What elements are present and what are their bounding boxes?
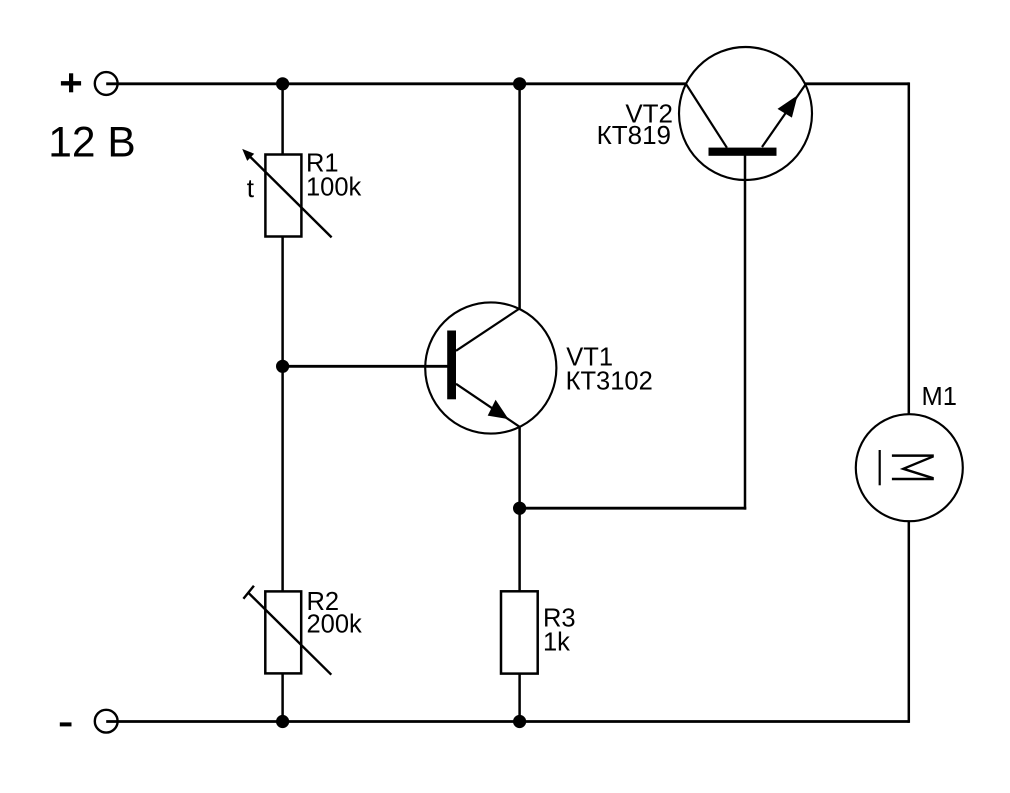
svg-text:1k: 1k [543,628,570,656]
svg-text:12 В: 12 В [48,120,135,167]
svg-text:t: t [247,173,255,203]
svg-text:100k: 100k [306,174,362,202]
svg-text:КТ3102: КТ3102 [566,368,653,396]
svg-text:M1: M1 [922,383,957,411]
svg-text:200k: 200k [307,610,363,638]
svg-text:КТ819: КТ819 [597,120,671,150]
